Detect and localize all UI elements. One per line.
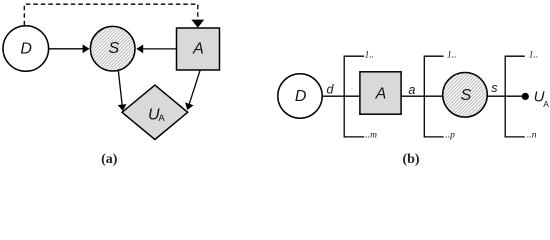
svg-text:..n: ..n <box>527 131 537 141</box>
multiplicity bracket 2 (between A and S) <box>424 50 456 140</box>
svg-text:D: D <box>295 88 307 105</box>
decision node D (part a) <box>3 26 49 72</box>
svg-text:a: a <box>408 83 415 97</box>
svg-text:A: A <box>158 113 165 124</box>
svg-text:1..: 1.. <box>447 50 457 60</box>
svg-text:..m: ..m <box>365 131 377 141</box>
svg-text:D: D <box>20 40 32 57</box>
svg-text:A: A <box>192 41 204 58</box>
svg-text:(a): (a) <box>101 152 118 167</box>
svg-text:A: A <box>543 99 549 109</box>
arrow D to S <box>49 44 90 53</box>
chance node S (part b, hatched) <box>443 73 488 118</box>
svg-text:S: S <box>108 40 119 57</box>
svg-text:S: S <box>461 87 472 104</box>
utility bullet node <box>522 93 529 100</box>
action node A (part b, gray square) <box>360 72 401 114</box>
svg-text:1..: 1.. <box>365 50 375 60</box>
connector line D to A (part b) <box>322 95 360 97</box>
svg-text:A: A <box>375 86 387 103</box>
connector line S to U_A bullet (part b) <box>487 95 525 97</box>
svg-text:(b): (b) <box>402 152 419 167</box>
svg-text:d: d <box>327 83 335 97</box>
dashed informational arc D to A <box>24 4 204 28</box>
svg-text:..p: ..p <box>445 131 455 141</box>
arrow A to S <box>136 45 176 54</box>
node D (part b) <box>278 74 322 118</box>
utility node U_A (part a, gray diamond) <box>122 85 188 139</box>
action node A (part a, gray square) <box>177 28 220 70</box>
arrow S to U_A <box>118 70 127 112</box>
svg-text:s: s <box>491 81 497 95</box>
multiplicity bracket 3 (between S and U_A) <box>505 50 538 140</box>
connector line A to S (part b) <box>401 95 444 97</box>
chance node S (part a, hatched) <box>90 26 135 71</box>
multiplicity bracket 1 (between D and A) <box>344 50 377 140</box>
svg-text:1..: 1.. <box>529 50 539 60</box>
arrow A to U_A <box>185 71 200 110</box>
label U_A (part b) <box>534 89 550 109</box>
